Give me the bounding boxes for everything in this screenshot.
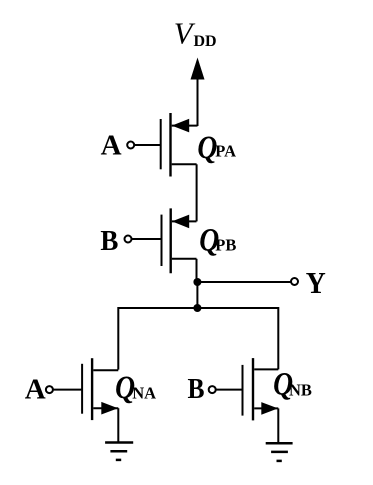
svg-text:A: A: [25, 373, 46, 405]
transistor QNA (NMOS): [82, 358, 118, 420]
ground (QNA source): [105, 443, 133, 460]
wire: QNB source to ground: [277, 408, 279, 443]
wire: QPA drain to QPB source: [196, 164, 198, 221]
label QPB: [199, 222, 236, 258]
svg-text:DD: DD: [194, 33, 217, 50]
input terminal A (bottom): [46, 386, 53, 393]
wire: terminal A to QPA gate: [134, 144, 160, 146]
transistor QPB (PMOS): [162, 208, 197, 273]
transistor QPA (PMOS): [161, 113, 198, 177]
junction: output node (Y tap): [193, 278, 201, 286]
svg-text:B: B: [188, 373, 205, 405]
junction: NMOS drain rail tap: [193, 304, 201, 312]
input terminal B (middle): [125, 236, 132, 243]
svg-text:NA: NA: [132, 384, 156, 403]
input terminal B (bottom): [209, 386, 216, 393]
wire: output node to Y terminal: [197, 281, 291, 283]
net VDD label: [174, 16, 217, 50]
svg-text:PA: PA: [215, 142, 236, 161]
ground (QNB source): [266, 443, 293, 461]
wire: output node down to rail junction: [196, 282, 198, 308]
output terminal Y: [291, 278, 298, 285]
wire: terminal B to QPB gate: [132, 238, 162, 240]
label QPA: [197, 130, 236, 166]
svg-text:B: B: [100, 225, 118, 257]
label QNB: [273, 367, 312, 403]
label QNA: [115, 370, 156, 406]
VDD supply arrow: [191, 58, 205, 127]
svg-text:A: A: [101, 130, 122, 162]
wire: QNA source to ground: [117, 408, 119, 442]
transistor QNB (NMOS): [243, 358, 279, 420]
wire: terminal B to QNB gate: [216, 389, 242, 391]
wire: QPB drain to output node: [196, 259, 198, 282]
input terminal A (top): [127, 142, 134, 149]
svg-text:NB: NB: [289, 381, 312, 400]
wire: NMOS drain rail: [118, 308, 278, 370]
svg-text:PB: PB: [215, 236, 236, 255]
wire: terminal A to QNA gate: [53, 389, 82, 391]
svg-text:Y: Y: [306, 265, 326, 300]
